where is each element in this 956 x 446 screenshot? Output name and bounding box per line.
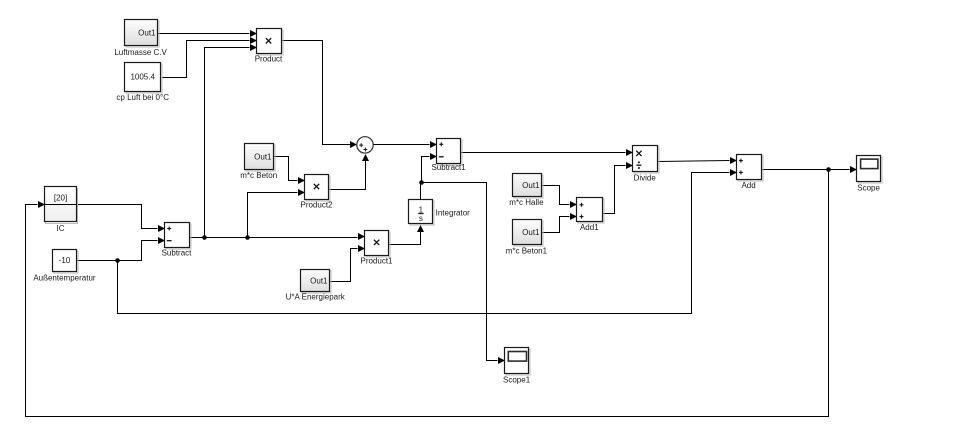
svg-text:Subtract1: Subtract1: [431, 163, 466, 172]
constant 1005.4: [125, 63, 163, 94]
wire feedback from node-D to Add in2: [118, 169, 738, 314]
svg-text:s: s: [419, 214, 423, 223]
label Integrator: [436, 208, 471, 217]
wire -10 to Subtract in2: [77, 237, 166, 261]
wire node-A up to Product2 in2: [248, 189, 306, 238]
svg-text:Out1: Out1: [522, 181, 540, 190]
wire Subtract1 out to Divide in1: [461, 149, 634, 156]
junction node C: [826, 167, 831, 172]
label m*c Beton1: [506, 247, 548, 256]
wire Add out to Scope: [761, 166, 858, 173]
svg-text:U*A Energiepark: U*A Energiepark: [286, 293, 346, 302]
wire m*c Halle to Add1 in1: [541, 186, 578, 209]
wire IC out to Subtract in1: [77, 205, 166, 233]
svg-text:m*c Beton1: m*c Beton1: [506, 247, 548, 256]
wire Product out to Sum left: [281, 41, 358, 149]
outport Out1 Luftmasse C.V: [125, 20, 160, 48]
svg-text:Out1: Out1: [310, 276, 328, 285]
wire Product1 out to Integrator in: [389, 225, 425, 245]
add block Add1: [577, 198, 605, 224]
label Add: [741, 181, 755, 190]
label cp Luft bei 0&#176;C: [116, 93, 169, 102]
svg-text:Subtract: Subtract: [162, 249, 193, 258]
wire Out1-Luftmasse to Product in1: [158, 30, 258, 37]
add block Add: [737, 155, 764, 182]
svg-text:IC: IC: [57, 224, 65, 233]
divide block Divide: [633, 146, 660, 174]
label m*c Halle: [509, 198, 544, 207]
product block Product: [257, 29, 284, 56]
junction node B: [419, 180, 424, 185]
label Add1: [580, 223, 599, 232]
svg-text:Product2: Product2: [300, 201, 333, 210]
subtract block Subtract: [165, 223, 192, 250]
wire Divide out to Add in1: [658, 157, 738, 164]
svg-text:Out1: Out1: [522, 228, 540, 237]
wire U*A Energiepark to Product1 in2: [330, 245, 366, 282]
svg-text:Add: Add: [741, 181, 755, 190]
outport Out1 m*c Beton: [245, 144, 276, 172]
sum junction circle: [357, 137, 373, 153]
label U*A Energiepark: [286, 293, 346, 302]
product block Product2: [305, 175, 331, 202]
wire Integrator out to node-B: [420, 183, 422, 200]
svg-text:[20]: [20]: [54, 194, 67, 203]
scope block Scope: [857, 156, 883, 184]
label Product: [255, 55, 283, 64]
svg-text:Out1: Out1: [138, 28, 156, 37]
product block Product1: [365, 231, 391, 258]
label Subtract1: [431, 163, 466, 172]
label Divide: [634, 174, 657, 183]
label m*c Beton: [240, 171, 277, 180]
svg-text:Scope1: Scope1: [503, 375, 531, 384]
svg-text:Divide: Divide: [634, 174, 657, 183]
svg-text:Add1: Add1: [580, 223, 599, 232]
label Product2: [300, 201, 333, 210]
wire 1005.4 to Product in2: [162, 37, 258, 78]
label Scope: [857, 183, 880, 192]
wire node-B up to Subtract1 in2: [422, 153, 438, 183]
junction node D: [115, 258, 120, 263]
svg-text:Product: Product: [255, 55, 283, 64]
label Subtract: [162, 249, 193, 258]
svg-text:1005.4: 1005.4: [130, 72, 155, 81]
junction node A: [245, 235, 250, 240]
label Luftmasse C.V: [114, 48, 167, 57]
svg-text:Luftmasse C.V: Luftmasse C.V: [114, 48, 167, 57]
label Scope1: [503, 375, 531, 384]
IC block [20]: [45, 187, 78, 224]
svg-text:-10: -10: [59, 256, 71, 265]
wire m*c Beton1 to Add1 in2: [541, 213, 578, 233]
outport Out1 U*A Energiepark: [301, 270, 332, 294]
scope block Scope1: [505, 348, 531, 376]
svg-text:Integrator: Integrator: [436, 208, 471, 217]
wire feedback loop Add-out to IC: [26, 170, 829, 417]
svg-text:Product1: Product1: [360, 257, 393, 266]
wire node-A1 up to Product in3: [205, 44, 258, 238]
wire Sum out to Subtract1 in1: [374, 141, 438, 148]
svg-text:Scope: Scope: [857, 183, 880, 192]
wire Subtract out to Product1 in1: [189, 233, 366, 240]
label Au&#223;entemperatur: [33, 273, 96, 282]
integrator block 1/s: [409, 200, 435, 226]
svg-text:cp Luft bei 0°C: cp Luft bei 0°C: [116, 93, 169, 102]
outport Out1 m*c Beton1: [513, 220, 544, 247]
constant -10: [53, 250, 79, 274]
svg-text:m*c Halle: m*c Halle: [509, 198, 544, 207]
svg-text:Out1: Out1: [254, 152, 272, 161]
outport Out1 m*c Halle: [513, 174, 544, 199]
subtract block Subtract1: [437, 139, 463, 166]
junction node A1: [202, 235, 207, 240]
wire m*c Beton to Product2 in1: [274, 157, 306, 185]
label Product1: [360, 257, 393, 266]
wire node-B to Scope1: [422, 183, 506, 365]
wire Add1 out to Divide in2: [603, 162, 634, 214]
label IC: [57, 224, 65, 233]
wire Product2 out to Sum bottom: [329, 154, 370, 190]
svg-text:Außentemperatur: Außentemperatur: [33, 273, 96, 282]
svg-text:m*c Beton: m*c Beton: [240, 171, 277, 180]
